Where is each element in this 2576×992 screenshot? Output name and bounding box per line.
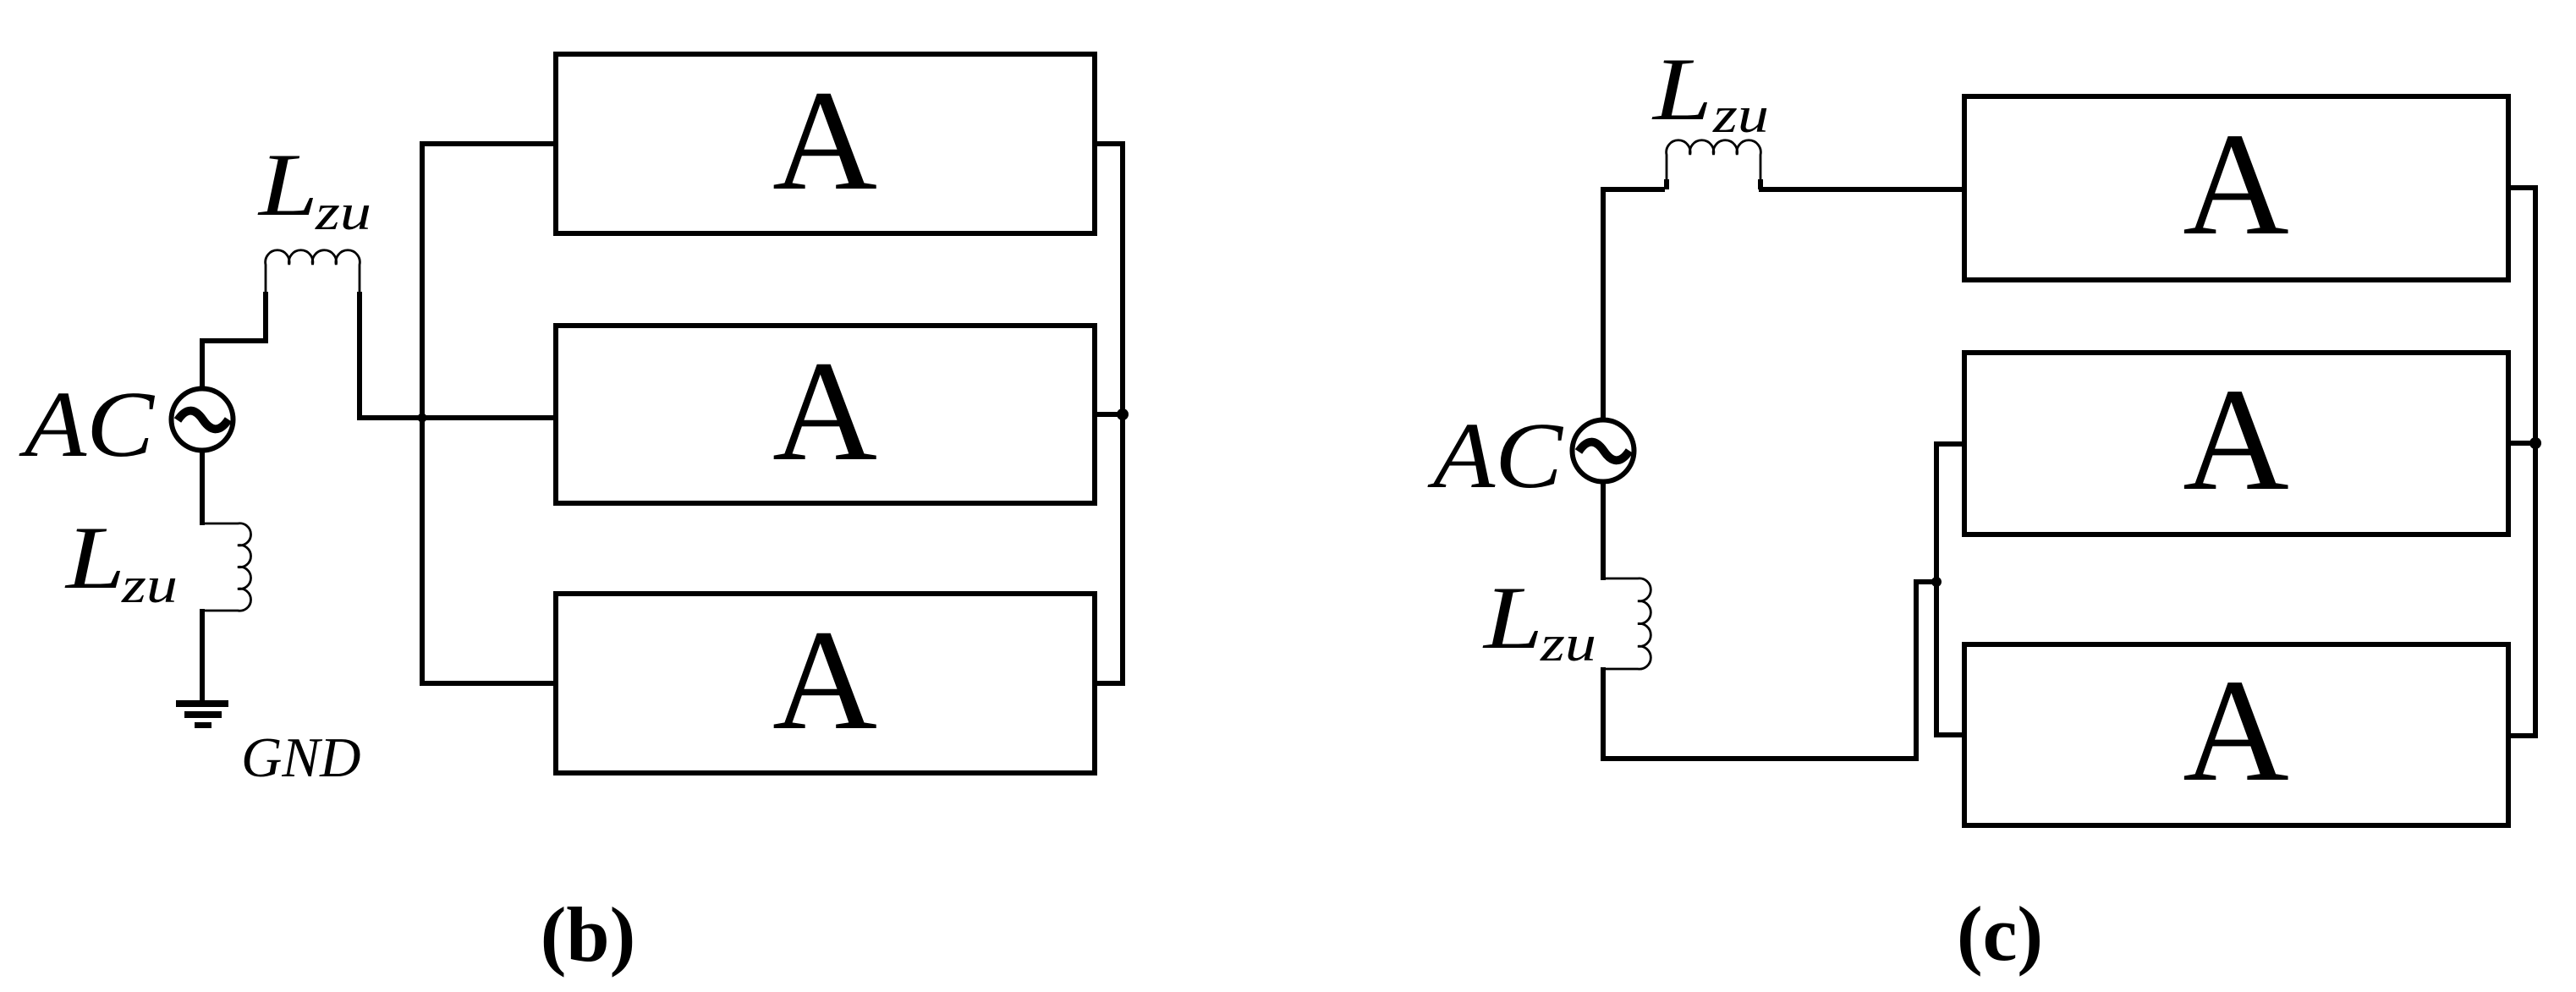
svg-text:A: A: [2183, 358, 2289, 521]
svg-text:A: A: [772, 61, 877, 220]
box A1 (b): [556, 54, 1095, 233]
lead nub right: [1758, 179, 1763, 189]
wire inductor right lead down and to boxes (node feed): [360, 292, 553, 418]
svg-text:L: L: [64, 508, 125, 607]
wire inner bus A2/A3 left (c): [1936, 444, 1964, 735]
svg-text:zu: zu: [315, 184, 371, 240]
ground: [176, 704, 228, 726]
svg-text:zu: zu: [1540, 616, 1596, 671]
wire AC bottom to coil: [200, 448, 205, 525]
box A1 (c): [1964, 96, 2508, 280]
junction dot right bus (c): [2529, 437, 2541, 449]
svg-text:L: L: [257, 135, 318, 234]
AC sine symbol (c): [1579, 442, 1629, 461]
inductor L_zu horizontal (b): [266, 250, 360, 295]
wire coil bottom to ground: [200, 609, 205, 701]
AC source circle (c): [1573, 420, 1634, 482]
wire AC bottom to coil (c): [1601, 481, 1606, 580]
inductor L_zu horizontal (c): [1667, 140, 1761, 187]
junction dot inner bus (c): [1931, 577, 1942, 587]
AC sine symbol (b): [178, 411, 228, 430]
wire left bus with stubs to A1 and A3: [422, 144, 556, 683]
inductor L_zu vertical (c): [1605, 578, 1651, 669]
box A3 (b): [556, 594, 1095, 773]
svg-text:GND: GND: [241, 726, 360, 789]
box A3 (c): [1964, 644, 2508, 825]
lead nub left: [1664, 179, 1669, 189]
wire right bus with stubs (c): [2508, 188, 2535, 736]
box A2 (c): [1964, 353, 2508, 534]
wire AC top to inductor left lead: [202, 292, 266, 390]
inductor L_zu vertical (b): [204, 523, 251, 611]
junction dot node feed/bus (b): [418, 414, 427, 423]
svg-text:AC: AC: [18, 373, 156, 477]
svg-text:zu: zu: [121, 557, 178, 613]
svg-text:L: L: [1651, 40, 1712, 139]
svg-text:A: A: [2183, 649, 2289, 812]
wire coil bottom around to inner bus (c): [1603, 582, 1934, 759]
box A2 (b): [556, 326, 1095, 503]
svg-text:(c): (c): [1957, 891, 2043, 977]
wire inductor to A1 (c): [1759, 187, 1964, 192]
svg-text:zu: zu: [1712, 87, 1769, 143]
svg-text:A: A: [772, 600, 877, 759]
svg-text:A: A: [2183, 102, 2289, 266]
svg-text:(b): (b): [541, 891, 635, 978]
svg-text:L: L: [1482, 568, 1543, 667]
wire stub A2 right: [1095, 412, 1123, 417]
AC source circle (b): [172, 389, 233, 451]
junction dot right bus (b): [1117, 408, 1129, 420]
svg-text:A: A: [772, 332, 877, 491]
svg-text:AC: AC: [1426, 404, 1564, 508]
wire stub A2 right (c): [2508, 441, 2535, 446]
wire right bus with stubs A1/A3: [1095, 144, 1123, 683]
wire AC top up and to inductor: [1603, 189, 1665, 419]
